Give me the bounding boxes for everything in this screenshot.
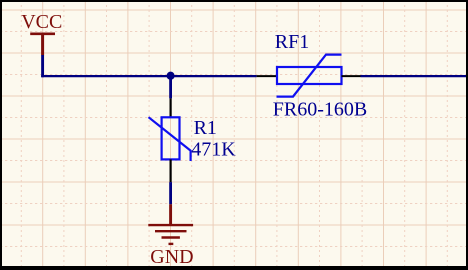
ground bar 2 xyxy=(155,230,187,232)
fuse RF1 pin 1 (left) xyxy=(257,75,277,77)
svg-text:RF1: RF1 xyxy=(275,31,309,53)
fuse RF1 thermistor stroke xyxy=(277,55,342,97)
fuse RF1 body rectangle xyxy=(277,67,342,84)
svg-text:VCC: VCC xyxy=(21,11,62,33)
sheet border frame xyxy=(0,0,468,2)
wire from VCC down and across to fuse xyxy=(41,55,44,77)
junction dot xyxy=(167,72,175,80)
R1 pin 1 (top) xyxy=(170,98,172,117)
ground bar 1 xyxy=(148,224,193,226)
svg-text:GND: GND xyxy=(150,246,193,268)
wire junction down to R1 pin xyxy=(169,76,172,98)
wire R1 to GND xyxy=(169,182,172,204)
wire horizontal run xyxy=(41,75,256,77)
power port VCC stem xyxy=(41,34,44,55)
ground bar 4 xyxy=(169,243,174,245)
ground bar 3 xyxy=(162,236,180,238)
svg-text:FR60-160B: FR60-160B xyxy=(273,99,367,121)
svg-text:471K: 471K xyxy=(191,138,236,160)
svg-text:R1: R1 xyxy=(194,117,217,139)
R1 pin 2 (bottom) xyxy=(170,159,172,182)
varistor R1 diagonal stroke with foot xyxy=(149,117,191,161)
ground GND stem xyxy=(169,204,172,225)
fuse RF1 pin 2 (right) xyxy=(342,75,361,77)
varistor R1 body rectangle xyxy=(162,117,180,159)
wire fuse to right edge xyxy=(361,75,468,77)
power port VCC bar xyxy=(30,32,55,35)
